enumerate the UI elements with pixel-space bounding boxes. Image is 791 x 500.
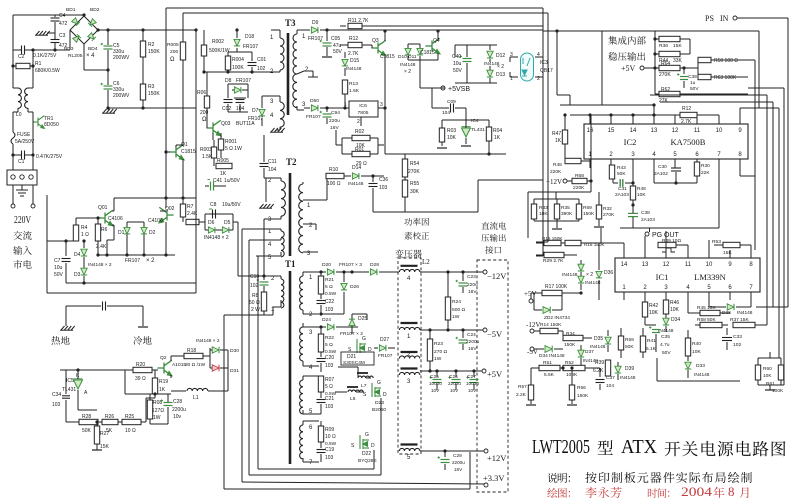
svg-text:C26: C26 (449, 374, 458, 380)
svg-text:0.47K/275V: 0.47K/275V (36, 154, 63, 160)
capacitor C24 (461, 328, 464, 331)
svg-text:R02: R02 (355, 129, 364, 135)
resistor R26 (98, 421, 102, 423)
resistor R43 (610, 159, 612, 165)
+3.3V rail (242, 482, 484, 484)
wire right bus x767 (766, 95, 768, 325)
wire (344, 94, 346, 108)
wire AC top (13, 14, 55, 16)
wire vertical x196 (195, 30, 197, 293)
resistor R35 (554, 204, 559, 219)
svg-text:10v: 10v (173, 414, 182, 420)
diode D13 (489, 66, 491, 70)
svg-text:IN4148: IN4148 (400, 62, 416, 68)
capacitor C4 (54, 15, 56, 17)
capacitor C35 (645, 324, 656, 326)
svg-text:R20: R20 (136, 362, 145, 368)
diode D15 (344, 52, 346, 58)
svg-text:0.5W: 0.5W (325, 291, 337, 297)
svg-text:R18: R18 (187, 348, 196, 354)
capacitor C6 (107, 70, 109, 85)
capacitor C19 (320, 442, 322, 448)
resistor R06 (206, 72, 208, 96)
resistor R56 (569, 385, 574, 400)
svg-text:5.6K: 5.6K (544, 372, 555, 378)
capacitor C20 (320, 352, 322, 357)
svg-text:D34: D34 (671, 317, 680, 323)
resistor R30 (696, 159, 698, 162)
capacitor C31 (612, 179, 614, 183)
svg-text:D38: D38 (722, 310, 731, 316)
svg-text:10u: 10u (54, 265, 63, 271)
svg-text:1K: 1K (159, 387, 166, 393)
svg-text:2.7K: 2.7K (348, 51, 359, 57)
svg-text:15: 15 (608, 128, 615, 134)
svg-text:FR107: FR107 (378, 353, 393, 359)
connector dashed box (477, 260, 508, 492)
svg-text:2200u: 2200u (448, 381, 461, 386)
svg-text:TL431: TL431 (471, 127, 485, 133)
resistor R22 (320, 327, 322, 334)
resistor R52 (563, 365, 585, 370)
wire T1 left lower (263, 275, 265, 277)
svg-text:FR107: FR107 (243, 44, 258, 50)
svg-text:50V: 50V (333, 49, 343, 55)
svg-text:C7: C7 (54, 258, 61, 264)
svg-text:R63 100K: R63 100K (714, 75, 737, 81)
wire (77, 397, 79, 410)
transformer T1 core (289, 271, 292, 464)
svg-text:C8: C8 (210, 202, 217, 208)
wire PG bus (620, 227, 719, 229)
svg-text:C34: C34 (52, 392, 61, 398)
svg-text:R22: R22 (325, 335, 334, 341)
svg-text:C02: C02 (222, 106, 231, 112)
svg-text:C40: C40 (452, 54, 461, 60)
resistor R57 (531, 367, 536, 369)
L2 winding 5 (401, 443, 418, 445)
svg-text:LWT2005: LWT2005 (532, 436, 590, 458)
svg-text:50K: 50K (625, 344, 634, 350)
wire (265, 178, 267, 202)
resistor R005b (216, 163, 232, 168)
svg-text:2A102: 2A102 (654, 171, 668, 177)
wire bus x602 (601, 31, 603, 105)
svg-text:R35: R35 (561, 205, 570, 211)
svg-text:+3.3V: +3.3V (483, 473, 505, 483)
svg-text:D: D (383, 392, 387, 398)
svg-text:R43: R43 (617, 165, 626, 171)
resistor R25 (118, 421, 122, 423)
svg-text:C24: C24 (467, 332, 476, 338)
resistor R63 (697, 68, 699, 77)
node y72 (204, 71, 271, 73)
svg-text:13: 13 (642, 262, 649, 268)
svg-text:10V: 10V (450, 388, 459, 393)
transformer T2 core (289, 173, 292, 256)
svg-text:150K: 150K (148, 91, 160, 97)
resistor R7 (182, 198, 184, 204)
transistor Q2 (157, 360, 171, 375)
svg-text:103: 103 (379, 185, 388, 191)
svg-text:270K: 270K (659, 72, 671, 78)
svg-text:104: 104 (606, 383, 614, 389)
note line (547, 473, 570, 483)
wire bridge out - (83, 44, 85, 70)
svg-text:1K: 1K (494, 135, 501, 141)
svg-text:+5V: +5V (487, 369, 503, 379)
diode D36 (598, 265, 600, 270)
wire bottom rail 1 (257, 256, 259, 469)
svg-text:R36: R36 (659, 43, 668, 49)
diode D34c (540, 348, 544, 350)
wire rail y198 (114, 197, 196, 199)
svg-text:5.1K: 5.1K (646, 346, 657, 352)
resistor R64 (659, 65, 680, 70)
svg-text:D24: D24 (322, 317, 331, 323)
wire box bottom (47, 240, 76, 242)
svg-text:TL431: TL431 (62, 387, 76, 393)
svg-text:R27: R27 (100, 431, 109, 437)
svg-text:10K: 10K (637, 192, 646, 198)
svg-text:L0: L0 (16, 112, 22, 118)
capacitor C41 (210, 182, 212, 191)
ground hot (60, 326, 75, 330)
terminal +5VSB (441, 86, 445, 90)
ground (270, 128, 285, 132)
svg-text:D50: D50 (310, 98, 319, 104)
svg-text:10u/50V: 10u/50V (222, 202, 241, 208)
svg-text:50V: 50V (453, 68, 463, 74)
svg-text:R07: R07 (325, 377, 334, 383)
svg-text:C05: C05 (331, 36, 340, 42)
svg-text:103: 103 (325, 455, 334, 461)
svg-text:270 Ω: 270 Ω (434, 349, 448, 355)
rail y105 (560, 104, 654, 106)
svg-text:D36: D36 (604, 270, 613, 276)
wire (66, 282, 84, 284)
wire drive to T2-3 (263, 219, 265, 270)
resistor R21 (320, 272, 322, 276)
resistor R51 (539, 365, 560, 370)
svg-text:× 2: × 2 (586, 272, 593, 278)
svg-text:C1815: C1815 (181, 149, 196, 155)
thyristor TR1 (33, 116, 45, 129)
svg-text:D28: D28 (370, 262, 379, 268)
svg-text:103: 103 (325, 404, 334, 410)
svg-text:C22: C22 (325, 299, 334, 305)
wire (142, 100, 144, 108)
svg-text:IN4148: IN4148 (585, 280, 601, 286)
wire (534, 198, 579, 200)
svg-text:L6: L6 (350, 396, 356, 402)
svg-text:150K: 150K (148, 49, 160, 55)
svg-text:15K: 15K (723, 250, 732, 256)
svg-text:10K: 10K (649, 310, 659, 316)
resistor R48b (565, 158, 581, 163)
svg-text:C28: C28 (173, 399, 182, 405)
svg-text:R06: R06 (197, 90, 206, 96)
ground (96, 444, 98, 450)
svg-text:R56: R56 (577, 385, 586, 391)
svg-text:R01: R01 (355, 147, 364, 153)
svg-text:C1815: C1815 (420, 50, 435, 56)
svg-text:R11 2.7K: R11 2.7K (348, 18, 369, 24)
terminal L (12, 185, 14, 204)
svg-text:6.2K: 6.2K (593, 368, 604, 374)
svg-text:D20: D20 (322, 262, 331, 268)
svg-text:12: 12 (672, 128, 679, 134)
resistor R4 (76, 217, 99, 219)
svg-text:KA7500B: KA7500B (671, 137, 706, 147)
resistor R12b (680, 112, 697, 117)
svg-text:2200u: 2200u (172, 407, 186, 413)
resistor R54 (404, 154, 406, 159)
L2 winding 4 (401, 265, 418, 267)
transistor Q1 (169, 144, 183, 159)
svg-text:R004: R004 (232, 57, 244, 63)
svg-text:D27: D27 (380, 337, 389, 343)
svg-text:200: 200 (170, 49, 178, 55)
wire bridge out + (98, 29, 196, 31)
svg-text:R52: R52 (565, 360, 574, 366)
IC2 pin stubs top (589, 115, 591, 124)
regulator IC4b TL431 (462, 127, 471, 137)
wire bottom rail 3 (248, 240, 250, 475)
svg-text:R34: R34 (566, 331, 575, 337)
resistor R69 (576, 204, 581, 219)
svg-text:220u: 220u (467, 282, 478, 288)
svg-text:IN4148 × 2: IN4148 × 2 (88, 262, 112, 268)
-5V rail (420, 329, 483, 331)
transistor Q02 (159, 207, 173, 222)
diode D39 (617, 362, 619, 366)
svg-text:G: G (362, 336, 366, 342)
svg-text:R48: R48 (553, 162, 562, 168)
svg-text:220V: 220V (14, 214, 31, 226)
svg-text:IN4148: IN4148 (346, 66, 362, 72)
svg-text:R45 15K: R45 15K (697, 305, 716, 311)
svg-text:C33: C33 (733, 334, 742, 340)
T1 sec winding 5 (300, 380, 303, 414)
svg-text:C11: C11 (268, 159, 277, 165)
svg-text:D34 IN4148: D34 IN4148 (539, 353, 565, 359)
svg-text:10u: 10u (453, 61, 462, 67)
svg-text:Q01: Q01 (98, 205, 108, 211)
AC socket (7, 170, 37, 185)
terminal N (32, 185, 34, 204)
resistor R003 (211, 147, 216, 158)
capacitor C37 (599, 368, 601, 377)
resistor R6 (97, 218, 99, 224)
svg-text:IN4148: IN4148 (583, 358, 598, 363)
svg-text:C09: C09 (447, 99, 456, 105)
rail A y8 (166, 7, 543, 9)
svg-text:39 Ω: 39 Ω (135, 376, 146, 382)
resistor R61 (778, 365, 783, 380)
svg-text:R28: R28 (82, 414, 91, 420)
svg-text:IN4148: IN4148 (694, 372, 710, 378)
resistor R39 (605, 360, 610, 376)
svg-text:R04: R04 (493, 128, 502, 134)
svg-text:R17 100K: R17 100K (545, 284, 568, 290)
diode D8 (227, 84, 229, 88)
capacitor C39 (682, 66, 685, 69)
svg-text:14: 14 (621, 262, 628, 268)
resistor R59 (618, 336, 623, 350)
regulator IC5 TL431 (74, 379, 83, 389)
svg-text:C1815: C1815 (380, 54, 395, 60)
svg-text:D26: D26 (350, 284, 359, 290)
svg-text:G: G (365, 432, 369, 438)
loop C40-D12-D13 (455, 44, 497, 46)
isolation capacitor (65, 306, 67, 326)
svg-text:D21: D21 (347, 354, 356, 360)
svg-text:10K: 10K (692, 349, 701, 355)
diode D7 (261, 96, 263, 108)
svg-text:ATX: ATX (621, 436, 658, 458)
svg-text:200WV: 200WV (113, 55, 130, 61)
wire pin9 (739, 108, 741, 115)
choke L6 (335, 391, 347, 393)
svg-text:500 Ω: 500 Ω (452, 307, 466, 313)
svg-text:100K: 100K (232, 65, 244, 71)
resistor R09 (320, 421, 322, 426)
svg-text:IN4148: IN4148 (348, 181, 364, 187)
svg-text:150K: 150K (583, 211, 595, 217)
resistor R58 (700, 322, 722, 327)
capacitor C26 (454, 369, 457, 372)
wire bus x543 (542, 8, 544, 256)
svg-text:R25: R25 (125, 414, 134, 420)
svg-text:C36: C36 (379, 177, 388, 183)
svg-text:C35: C35 (661, 334, 670, 340)
resistor R12 (348, 42, 362, 47)
svg-text:D25: D25 (358, 316, 367, 322)
svg-text:C3: C3 (59, 33, 66, 39)
svg-text:R61: R61 (766, 381, 775, 387)
diode D6 (208, 227, 215, 233)
rail above IC2 (570, 114, 719, 116)
svg-text:D7: D7 (252, 108, 259, 114)
svg-text:R30: R30 (701, 163, 710, 169)
svg-text:D33: D33 (696, 363, 705, 369)
capacitor C05 (326, 30, 328, 41)
capacitor C01 (251, 52, 253, 61)
capacitor C8 (212, 210, 214, 219)
svg-text:R03: R03 (447, 128, 456, 134)
svg-text:1W: 1W (434, 356, 442, 362)
wire bus x557 (555, 29, 558, 32)
svg-text:5 Ω 1W: 5 Ω 1W (225, 146, 242, 152)
svg-text:C4106: C4106 (148, 218, 163, 224)
transformer T3 core (287, 33, 290, 115)
IC2 box (584, 124, 748, 159)
svg-text:1.5K: 1.5K (202, 154, 213, 160)
svg-text:10 Ω: 10 Ω (325, 434, 336, 440)
svg-text:50V: 50V (54, 272, 64, 278)
transistor Q4 (425, 38, 439, 53)
resistor R60 (755, 365, 760, 380)
T2 right winding 1-2-3 (302, 182, 304, 184)
svg-text:4.7u: 4.7u (660, 342, 670, 348)
svg-text:R6: R6 (101, 227, 108, 233)
capacitor C30 (674, 159, 676, 166)
svg-text:D12: D12 (496, 53, 505, 59)
resistor R3 (140, 84, 145, 100)
svg-text:+5VSB: +5VSB (448, 86, 470, 93)
transistor Q01 (98, 210, 112, 225)
wire bottom rail 2 (241, 229, 243, 482)
svg-text:50K: 50K (82, 428, 92, 434)
svg-text:R001: R001 (225, 139, 237, 145)
diode D35 (607, 330, 609, 336)
svg-text:T3: T3 (285, 18, 296, 28)
svg-text:30 Ω /1W: 30 Ω /1W (185, 362, 206, 368)
diode D50 (304, 107, 310, 109)
svg-text:C01: C01 (257, 57, 266, 63)
diode D31 red (212, 365, 219, 371)
resistor R15 (544, 240, 561, 245)
svg-text:D31: D31 (230, 368, 239, 374)
diode D26 (343, 272, 345, 282)
diode D14 (344, 175, 351, 177)
capacitor C38 (632, 200, 634, 205)
svg-text:FR107: FR107 (125, 258, 140, 264)
diode D5 (222, 227, 229, 233)
IC1 pin stubs top (623, 250, 625, 258)
svg-text:R37 15K: R37 15K (730, 317, 749, 323)
svg-text:ZD2 IN4734: ZD2 IN4734 (544, 315, 570, 321)
svg-text:D39: D39 (625, 366, 634, 372)
svg-text:10 Ω: 10 Ω (125, 428, 136, 434)
svg-text:D8: D8 (225, 78, 232, 84)
svg-text:R42: R42 (649, 303, 658, 309)
svg-text:IC1: IC1 (656, 272, 669, 282)
svg-text:R13: R13 (349, 81, 358, 87)
svg-text:R14 150K: R14 150K (540, 322, 562, 328)
svg-text:−5V: −5V (487, 329, 503, 339)
svg-text:IN4148: IN4148 (620, 375, 636, 381)
capacitor C22 (320, 294, 322, 299)
capacitor C23 (461, 270, 464, 273)
svg-text:C2: C2 (18, 54, 25, 60)
resistor R1 (12, 50, 14, 66)
svg-text:D15: D15 (350, 58, 359, 64)
svg-text:+5V: +5V (524, 290, 537, 298)
svg-text:1u/50V: 1u/50V (224, 178, 241, 184)
svg-text:D2: D2 (149, 230, 156, 236)
svg-text:D13: D13 (496, 72, 505, 78)
svg-text:1u: 1u (690, 80, 696, 86)
svg-text:−12V: −12V (487, 271, 507, 281)
resistor R41 (640, 336, 645, 352)
svg-text:10K: 10K (539, 211, 548, 217)
transistor Q3 (371, 40, 385, 55)
svg-text:C1: C1 (18, 159, 25, 165)
svg-text:10: 10 (716, 128, 723, 134)
resistor R28 (66, 421, 79, 423)
svg-text:C30: C30 (658, 164, 667, 170)
svg-text:D: D (371, 443, 375, 449)
svg-text:5A/250V: 5A/250V (15, 139, 35, 145)
svg-text:15K: 15K (673, 43, 682, 49)
svg-text:FR107: FR107 (236, 78, 251, 84)
resistor R40 (685, 338, 690, 356)
svg-text:R64: R64 (661, 61, 670, 67)
svg-text:Q2: Q2 (160, 355, 167, 361)
rail B y13 (183, 12, 548, 14)
